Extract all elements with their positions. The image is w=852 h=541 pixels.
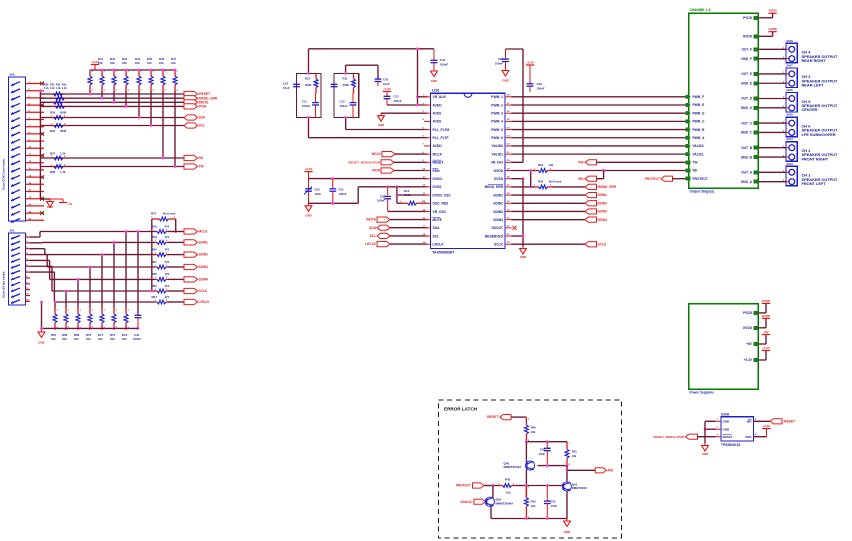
svg-text:Power Supplies: Power Supplies [690, 390, 715, 394]
svg-text:1.2k: 1.2k [60, 152, 66, 156]
svg-text:PWM_1: PWM_1 [491, 95, 503, 99]
svg-text:TPS3801K33: TPS3801K33 [721, 443, 740, 447]
svg-text:JA06: JA06 [786, 88, 793, 92]
svg-text:SDA: SDA [369, 226, 376, 230]
svg-text:10k: 10k [531, 504, 536, 508]
svg-text:R29: R29 [538, 163, 544, 167]
svg-text:VR_OSC: VR_OSC [433, 210, 447, 214]
svg-text:/BKND_ERR: /BKND_ERR [598, 185, 617, 189]
svg-text:R30: R30 [538, 179, 544, 183]
svg-text:10k: 10k [549, 163, 554, 167]
svg-text:10k: 10k [74, 337, 79, 341]
svg-text:VALID1: VALID1 [492, 152, 504, 156]
svg-text:+3.3V: +3.3V [305, 167, 313, 171]
svg-text:10k: 10k [135, 61, 140, 65]
svg-text:/RESET: /RESET [784, 419, 796, 423]
svg-text:/AVALID: /AVALID [460, 500, 473, 504]
svg-text:GND: GND [38, 341, 44, 345]
svg-text:/PDN: /PDN [372, 169, 380, 173]
svg-text:GND: GND [502, 79, 508, 83]
svg-text:GVDD: GVDD [743, 326, 753, 330]
svg-text:RD: RD [693, 169, 698, 173]
svg-text:SDIN2: SDIN2 [598, 201, 608, 205]
svg-text:PROTECT: PROTECT [645, 177, 660, 181]
svg-text:SDIN2: SDIN2 [199, 253, 209, 257]
svg-text:SDIN4: SDIN4 [493, 218, 503, 222]
svg-text:GND_C: GND_C [741, 131, 753, 135]
svg-text:+5V: +5V [68, 202, 73, 206]
svg-text:LRCLK: LRCLK [199, 300, 210, 304]
svg-text:MCLK: MCLK [199, 230, 209, 234]
svg-text:470: 470 [165, 235, 170, 239]
svg-text:16 pin I2S bus header: 16 pin I2S bus header [2, 271, 6, 298]
svg-text:VALID0: VALID0 [492, 144, 504, 148]
svg-text:RESERVED: RESERVED [485, 234, 504, 238]
svg-text:RD: RD [199, 156, 204, 160]
svg-text:PWM_F: PWM_F [693, 95, 705, 99]
svg-text:VALID1: VALID1 [693, 152, 704, 156]
svg-text:AVDD: AVDD [433, 103, 443, 107]
svg-text:PWM_A: PWM_A [693, 136, 706, 140]
svg-text:SDIN3: SDIN3 [199, 265, 209, 269]
svg-text:470: 470 [165, 224, 170, 228]
svg-text:SCLK: SCLK [199, 289, 208, 293]
svg-text:GND: GND [723, 427, 731, 431]
svg-text:R32: R32 [50, 83, 55, 86]
svg-text:SCLK: SCLK [494, 243, 504, 247]
svg-text:PLL_FLTM: PLL_FLTM [433, 128, 450, 132]
svg-text:SDA: SDA [199, 116, 206, 120]
svg-text:OUT_A: OUT_A [741, 171, 753, 175]
svg-text:GND: GND [378, 123, 384, 127]
svg-text:10k: 10k [122, 337, 127, 341]
svg-text:PVDD: PVDD [769, 9, 777, 13]
svg-text:JA0: JA0 [9, 73, 15, 77]
svg-text:R37: R37 [50, 152, 56, 156]
svg-text:10nF: 10nF [283, 86, 290, 90]
svg-text:SCLK: SCLK [598, 242, 607, 246]
svg-text:+8V: +8V [763, 330, 768, 334]
svg-text:R62: R62 [152, 272, 158, 276]
svg-text:REAR LEFT: REAR LEFT [802, 83, 824, 88]
svg-text:FRONT LEFT: FRONT LEFT [802, 181, 827, 186]
svg-text:R34: R34 [50, 129, 56, 133]
svg-text:+3.3V: +3.3V [763, 424, 771, 428]
svg-text:AVSS: AVSS [433, 120, 443, 124]
svg-text:R61: R61 [152, 260, 158, 264]
svg-text:GND_D: GND_D [741, 106, 753, 110]
svg-text:10nF: 10nF [538, 452, 545, 456]
svg-text:GND: GND [564, 530, 570, 534]
svg-text:100nF: 100nF [440, 62, 448, 66]
svg-text:GND: GND [305, 214, 311, 218]
svg-text:PVDD: PVDD [743, 16, 753, 20]
svg-text:PWM_5: PWM_5 [491, 128, 503, 132]
svg-text:2008: 2008 [60, 129, 67, 133]
svg-text:SDIN1: SDIN1 [598, 193, 608, 197]
svg-text:10k: 10k [51, 337, 56, 341]
svg-text:/PDN: /PDN [199, 105, 207, 109]
svg-text:R34: R34 [50, 111, 56, 115]
svg-text:R43: R43 [531, 499, 537, 503]
svg-text:/RD: /RD [608, 468, 614, 472]
svg-text:+8V: +8V [746, 342, 753, 346]
svg-text:LRCLK: LRCLK [433, 243, 445, 247]
svg-text:470: 470 [165, 295, 170, 299]
svg-text:U10: U10 [432, 88, 440, 93]
svg-text:AVDD: AVDD [433, 144, 443, 148]
svg-text:PWM_3: PWM_3 [491, 111, 503, 115]
svg-text:10k: 10k [62, 337, 67, 341]
svg-text:JA05: JA05 [786, 113, 793, 117]
svg-text:PVDD: PVDD [743, 311, 753, 315]
svg-text:470: 470 [165, 260, 170, 264]
svg-text:DVDD: DVDD [433, 177, 443, 181]
svg-text:R3x: R3x [62, 83, 67, 86]
svg-text:100nF: 100nF [495, 61, 503, 65]
svg-text:MMBT3904A: MMBT3904A [496, 501, 515, 505]
svg-text:LFE SUBWOOFER: LFE SUBWOOFER [802, 132, 836, 137]
svg-text:PWM_4: PWM_4 [491, 120, 503, 124]
svg-text:10k: 10k [506, 491, 511, 495]
svg-text:100nF: 100nF [537, 86, 545, 90]
svg-text:PDN: PDN [433, 169, 441, 173]
svg-text:JA03: JA03 [786, 162, 793, 166]
svg-text:MCLK: MCLK [433, 152, 443, 156]
svg-text:R38: R38 [50, 170, 56, 174]
svg-text:SCL: SCL [433, 234, 440, 238]
svg-text:1.2k: 1.2k [56, 87, 61, 90]
svg-text:100nF: 100nF [339, 192, 347, 196]
svg-text:+3.3V: +3.3V [744, 358, 753, 362]
svg-text:DVDD_OSC: DVDD_OSC [433, 193, 452, 197]
svg-text:JA07: JA07 [786, 63, 793, 67]
svg-text:100nF: 100nF [394, 99, 402, 103]
svg-text:R74: R74 [151, 212, 157, 216]
svg-text:1.2k: 1.2k [44, 87, 49, 90]
svg-text:VALID2: VALID2 [693, 144, 704, 148]
svg-text:CHANNEL 1-6: CHANNEL 1-6 [690, 8, 711, 12]
svg-text:OSC_RES: OSC_RES [433, 202, 450, 206]
svg-text:/RESET: /RESET [487, 415, 499, 419]
svg-text:100nF: 100nF [377, 199, 385, 203]
svg-text:18.2k: 18.2k [404, 193, 411, 197]
svg-text:R63: R63 [152, 284, 158, 288]
svg-text:PWM_B: PWM_B [693, 128, 706, 132]
svg-text:R11: R11 [343, 77, 348, 81]
svg-text:R42: R42 [505, 478, 511, 482]
svg-text:/RD: /RD [578, 177, 584, 181]
svg-text:PWM_6: PWM_6 [491, 136, 503, 140]
svg-text:SCL: SCL [199, 124, 205, 128]
svg-text:SDIN3: SDIN3 [493, 210, 503, 214]
svg-text:FRONT RIGHT: FRONT RIGHT [802, 156, 829, 161]
svg-text:10k: 10k [159, 61, 164, 65]
svg-text:JA04: JA04 [786, 137, 793, 141]
svg-text:VR_AUX: VR_AUX [433, 95, 447, 99]
svg-text:PWM_2: PWM_2 [491, 103, 503, 107]
svg-text:10k: 10k [122, 61, 127, 65]
svg-text:10k: 10k [110, 337, 115, 341]
svg-text:PMBT2222: PMBT2222 [572, 486, 588, 490]
svg-text:SDIN4: SDIN4 [199, 278, 209, 282]
svg-text:10uF: 10uF [315, 192, 322, 196]
svg-text:100nF: 100nF [133, 337, 141, 341]
svg-text:SDOUT: SDOUT [491, 226, 503, 230]
svg-text:PWM_D: PWM_D [693, 111, 706, 115]
svg-text:JA1: JA1 [9, 229, 15, 233]
svg-text:TW: TW [693, 161, 698, 165]
svg-text:R58: R58 [152, 224, 158, 228]
svg-text:+3.3V: +3.3V [383, 87, 391, 91]
svg-text:RESET: RESET [433, 161, 444, 165]
svg-text:OUT_C: OUT_C [741, 121, 753, 125]
svg-text:SCL: SCL [370, 234, 376, 238]
svg-text:10k: 10k [98, 337, 103, 341]
svg-text:BKND_ERR: BKND_ERR [485, 185, 504, 189]
svg-text:PROTECT: PROTECT [693, 177, 708, 181]
svg-text:GND: GND [520, 255, 526, 259]
svg-text:GND_A: GND_A [741, 180, 753, 184]
svg-text:PLL_FLTP: PLL_FLTP [433, 136, 450, 140]
svg-text:2008: 2008 [343, 83, 350, 87]
svg-text:TAS5086DBT: TAS5086DBT [432, 251, 455, 255]
svg-text:/RESET_MODULATOR: /RESET_MODULATOR [653, 435, 684, 439]
svg-text:OUT_E: OUT_E [741, 72, 752, 76]
svg-text:R30: R30 [44, 83, 49, 86]
svg-text:16 pin I2C/EC bus header: 16 pin I2C/EC bus header [2, 159, 6, 190]
svg-text:VR_DIG: VR_DIG [491, 161, 504, 165]
svg-text:MMBT3904A: MMBT3904A [504, 465, 523, 469]
svg-text:U20A: U20A [721, 412, 730, 416]
svg-text:100nF: 100nF [340, 104, 348, 108]
svg-text:RESET: RESET [723, 435, 733, 439]
svg-text:10nF: 10nF [551, 504, 558, 508]
svg-text:R40: R40 [531, 426, 537, 430]
svg-text:10k: 10k [531, 430, 536, 434]
svg-text:Output Stage(s): Output Stage(s) [690, 190, 715, 194]
svg-text:OUT_D: OUT_D [741, 97, 753, 101]
svg-text:1.2k: 1.2k [50, 87, 55, 90]
svg-text:10k: 10k [572, 454, 577, 458]
svg-text:GND: GND [723, 420, 731, 424]
svg-text:MCLK: MCLK [372, 152, 382, 156]
svg-text:/TW: /TW [578, 160, 584, 164]
svg-text:PWM_C: PWM_C [693, 120, 706, 124]
svg-text:C11: C11 [302, 100, 307, 104]
svg-text:R41: R41 [572, 449, 578, 453]
svg-text:R60: R60 [152, 247, 158, 251]
svg-text:GND_E: GND_E [741, 81, 752, 85]
svg-text:VDD: VDD [745, 435, 752, 439]
svg-text:SDIN3: SDIN3 [598, 210, 608, 214]
svg-text:DVDD: DVDD [494, 169, 504, 173]
svg-text:MUTE: MUTE [433, 218, 443, 222]
svg-text:SDA: SDA [433, 226, 441, 230]
svg-text:SDIN1: SDIN1 [199, 241, 209, 245]
svg-text:/RESET_MODULATOR: /RESET_MODULATOR [348, 160, 381, 164]
svg-text:GVDD: GVDD [743, 35, 753, 39]
svg-text:DVSS: DVSS [494, 177, 504, 181]
svg-text:JA08: JA08 [786, 39, 793, 43]
svg-text:GND: GND [431, 79, 437, 83]
svg-text:+3.3V: +3.3V [762, 346, 770, 350]
svg-text:AVSS: AVSS [433, 111, 443, 115]
svg-text:GND: GND [47, 205, 53, 209]
svg-text:CENTER: CENTER [802, 107, 818, 112]
svg-text:Not Used: Not Used [163, 212, 176, 216]
svg-text:DVSS: DVSS [433, 185, 443, 189]
svg-text:GND_F: GND_F [741, 57, 752, 61]
svg-text:Not Used: Not Used [549, 179, 562, 183]
svg-text:GND_B: GND_B [741, 155, 753, 159]
svg-text:R59: R59 [152, 235, 158, 239]
svg-text:R64: R64 [152, 295, 158, 299]
svg-text:LRCLK: LRCLK [365, 242, 376, 246]
svg-text:PWM_E: PWM_E [693, 103, 705, 107]
svg-text:R10: R10 [305, 77, 311, 81]
svg-text:C12: C12 [340, 100, 346, 104]
svg-text:SDIN4: SDIN4 [598, 218, 608, 222]
svg-text:PROTECT: PROTECT [456, 484, 471, 488]
svg-text:2008: 2008 [305, 83, 312, 87]
svg-text:GVDD: GVDD [768, 27, 776, 31]
svg-text:100nF: 100nF [302, 104, 310, 108]
svg-text:PVDD: PVDD [762, 299, 770, 303]
svg-text:470: 470 [165, 272, 170, 276]
svg-text:470: 470 [165, 284, 170, 288]
svg-text:GVDD: GVDD [762, 314, 770, 318]
svg-text:470: 470 [165, 247, 170, 251]
svg-text:10k: 10k [98, 61, 103, 65]
svg-text:/MUTE: /MUTE [366, 218, 376, 222]
svg-text:ERROR LATCH: ERROR LATCH [444, 407, 478, 412]
svg-text:10k: 10k [171, 61, 176, 65]
svg-text:OUT_F: OUT_F [742, 48, 753, 52]
svg-text:SDIN2: SDIN2 [493, 202, 503, 206]
svg-text:10k: 10k [147, 61, 152, 65]
svg-text:GND: GND [702, 452, 708, 456]
svg-text:R33: R33 [56, 83, 61, 86]
svg-text:10nF: 10nF [383, 82, 390, 86]
svg-text:REAR RIGHT: REAR RIGHT [802, 58, 827, 63]
svg-text:1.2k: 1.2k [60, 170, 66, 174]
svg-text:TW: TW [199, 165, 204, 169]
svg-text:SDIN1: SDIN1 [493, 193, 503, 197]
svg-text:2008: 2008 [60, 111, 67, 115]
svg-text:+3.3V: +3.3V [526, 61, 534, 65]
svg-text:C40: C40 [540, 448, 546, 452]
svg-text:1.2k: 1.2k [62, 87, 67, 90]
svg-text:10k: 10k [86, 337, 91, 341]
svg-text:C41: C41 [551, 499, 557, 503]
svg-text:10k: 10k [110, 61, 115, 65]
svg-text:OUT_B: OUT_B [741, 146, 753, 150]
